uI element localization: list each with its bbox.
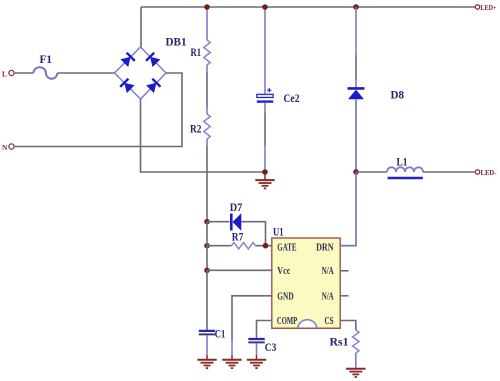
svg-text:LED-: LED- (481, 168, 497, 177)
svg-text:DB1: DB1 (166, 35, 187, 49)
ground below Ce2 (255, 174, 274, 188)
terminal LED+ (475, 3, 496, 12)
diode D7 (231, 213, 241, 231)
svg-text:DRN: DRN (316, 242, 334, 253)
wire R1 to R2 (206, 72, 208, 107)
capacitor C3 (248, 339, 264, 355)
svg-text:N: N (2, 143, 8, 152)
ground below C1 (197, 355, 216, 368)
svg-text:Ce2: Ce2 (284, 91, 300, 105)
resistor Rs1 (353, 330, 359, 369)
bridge diode top-right (146, 53, 160, 67)
wire bridge bottom to ground node (141, 99, 264, 172)
junction dot Ce2 ground node (262, 169, 268, 175)
junction dot R1 top (204, 4, 210, 10)
svg-text:R7: R7 (232, 230, 244, 244)
junction dot D8 top (353, 4, 359, 10)
svg-text:N/A: N/A (322, 266, 335, 277)
svg-text:F1: F1 (40, 52, 53, 66)
svg-text:COMP: COMP (277, 316, 297, 327)
diode D8 (348, 7, 365, 172)
terminal N (2, 143, 14, 152)
svg-text:C3: C3 (265, 340, 277, 354)
svg-text:CS: CS (325, 316, 334, 327)
wire fuse to bridge left corner (57, 72, 114, 74)
wire GND pin to ground (232, 296, 272, 355)
wire D7 left (207, 221, 230, 223)
wire Vcc node down to C1 (206, 270, 208, 330)
wire COMP to C3 (257, 321, 273, 339)
ground below C3 (247, 355, 266, 368)
pin stub N/A 1 (340, 270, 349, 272)
junction dot GATE node (263, 243, 269, 249)
svg-text:C1: C1 (215, 327, 226, 341)
svg-text:R1: R1 (191, 45, 202, 59)
svg-text:D8: D8 (391, 88, 405, 102)
ground below GND wire (222, 355, 241, 368)
svg-text:D7: D7 (230, 200, 243, 214)
ground below Rs1 (346, 368, 365, 377)
wire Vcc to IC (207, 269, 272, 271)
capacitor C1 (199, 331, 215, 355)
wire CS pin to Rs1 (340, 321, 356, 331)
svg-text:Rs1: Rs1 (330, 335, 349, 349)
bridge diode top-left (120, 53, 134, 67)
wire L1 to LED- (423, 171, 475, 173)
wire R2 node to Vcc (206, 222, 208, 271)
terminal LED- (475, 168, 497, 177)
capacitor Ce2 (257, 7, 273, 172)
junction dot Ce2 top (262, 4, 268, 10)
resistor R7 (232, 243, 256, 249)
bridge diode bottom-right (146, 79, 160, 93)
wire R2 down to D7 node (206, 146, 208, 222)
wire R7 right lead (256, 245, 273, 247)
bridge diode bottom-left (120, 79, 134, 93)
inductor L1 (387, 167, 423, 178)
wire R7 left lead (207, 245, 232, 247)
svg-text:Vcc: Vcc (277, 266, 290, 277)
junction dot Vcc node (204, 268, 210, 274)
svg-text:R2: R2 (190, 122, 202, 136)
resistor R2 (204, 107, 210, 146)
wire N to bridge right corner (14, 73, 182, 147)
svg-text:GATE: GATE (277, 242, 296, 253)
wire D7 right to R7 right node (241, 222, 265, 246)
fuse F1 (34, 67, 58, 78)
junction dot D8 L1 DRN node (353, 169, 359, 175)
svg-text:U1: U1 (273, 225, 284, 239)
wire node down to DRN pin (340, 172, 356, 246)
op-amp U1 IC body (272, 238, 340, 328)
bridge rectifier DB1 diamond (115, 47, 167, 99)
wire left drop to bridge top (140, 7, 142, 48)
svg-text:L1: L1 (397, 155, 408, 169)
wire node to L1 (356, 171, 387, 173)
resistor R1 (204, 7, 210, 72)
pin stub N/A 2 (340, 295, 349, 297)
svg-text:GND: GND (277, 292, 293, 303)
svg-text:L: L (2, 70, 7, 79)
junction dot D7 left (204, 219, 210, 225)
terminal L (2, 70, 14, 79)
svg-text:LED+: LED+ (481, 3, 497, 12)
junction dot R7 left (204, 243, 210, 249)
svg-text:N/A: N/A (322, 292, 335, 303)
wire L to fuse (14, 72, 34, 74)
wire top rail (141, 6, 476, 8)
